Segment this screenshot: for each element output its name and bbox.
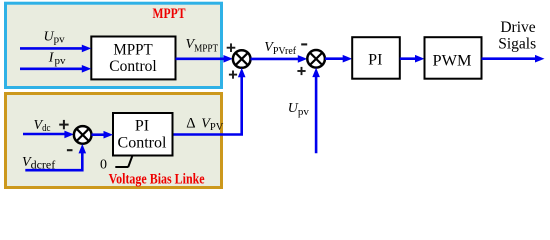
wire V_MPPT: MPPT Control to summing junction 1 — [176, 55, 233, 63]
label Drive Sigals — [498, 19, 536, 52]
svg-text:MPPT: MPPT — [113, 42, 153, 59]
svg-text:Drive: Drive — [500, 19, 535, 36]
sign plus (delta V_PV input) — [229, 71, 237, 79]
block MPPT Control — [91, 37, 175, 80]
MPPT section background box (cyan border) — [6, 3, 222, 87]
block PI — [352, 37, 400, 78]
wire delta V_PV: PI Control to junction 1 (up) — [173, 68, 246, 135]
sign plus (V_dc input) — [59, 120, 68, 129]
svg-text:Control: Control — [118, 134, 167, 151]
wire V_dc input — [23, 131, 74, 139]
svg-text:Sigals: Sigals — [498, 36, 536, 53]
wire junction 3 to PI Control — [92, 131, 114, 139]
sign plus (U_pv input) — [297, 67, 305, 75]
svg-text:0: 0 — [100, 157, 107, 172]
wire V_dcref input (right then up into junction 3) — [25, 144, 86, 170]
summing junction 1 — [233, 50, 251, 68]
block PI Control — [113, 113, 173, 156]
wire PI to PWM — [400, 55, 425, 63]
wire PWM output (Drive Signals) — [482, 55, 545, 63]
svg-text:MPPT: MPPT — [153, 6, 186, 22]
summing junction 2 — [307, 50, 325, 68]
summing junction 3 — [74, 126, 92, 144]
sign minus (V_dcref input) — [67, 149, 73, 151]
svg-text:Upv: Upv — [288, 101, 310, 118]
svg-text:PI: PI — [368, 52, 382, 69]
label delta V_PV — [186, 116, 223, 134]
svg-text:Vdcref: Vdcref — [22, 155, 55, 171]
block PWM — [425, 37, 482, 78]
Voltage Bias section background box (orange border) — [6, 94, 222, 188]
svg-text:PWM: PWM — [433, 53, 472, 70]
wire junction 2 to PI — [325, 55, 352, 63]
sign plus (V_MPPT input) — [227, 43, 236, 52]
svg-text:Voltage Bias Linke: Voltage Bias Linke — [109, 172, 205, 188]
svg-text:PI: PI — [135, 117, 149, 134]
wire U_pv up into junction 2 — [312, 68, 320, 154]
svg-text:Control: Control — [109, 58, 157, 75]
sign minus (V_PVref input) — [301, 43, 307, 45]
svg-text:VPVref: VPVref — [264, 40, 297, 57]
wire V_PVref: junction 1 to junction 2 — [251, 55, 308, 63]
wire I_pv input — [20, 65, 91, 73]
switch symbol with 0 at PI Control bottom — [100, 156, 132, 172]
wire U_pv input — [20, 45, 91, 53]
svg-text:Δ: Δ — [186, 116, 195, 132]
